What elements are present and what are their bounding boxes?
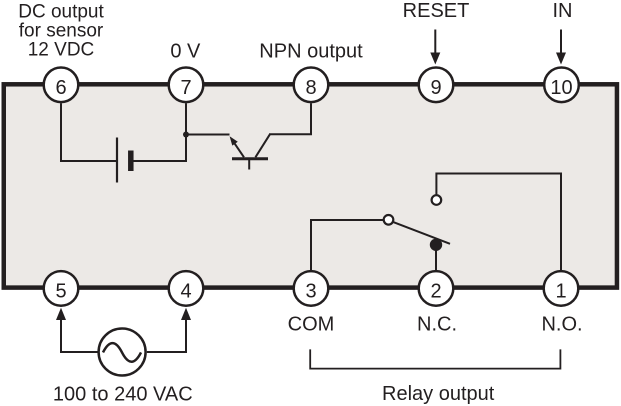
- wire battery to terminal 7 branch: [134, 160, 187, 162]
- svg-text:Relay output: Relay output: [382, 383, 495, 405]
- svg-text:6: 6: [55, 77, 66, 99]
- terminal 8: [294, 68, 329, 103]
- wire AC source to terminal 4: [147, 308, 191, 352]
- svg-text:NPN output: NPN output: [259, 41, 363, 63]
- terminal 5: [44, 271, 79, 306]
- IN input arrow: [556, 30, 566, 65]
- svg-text:RESET: RESET: [403, 0, 470, 22]
- wire node to transistor emitter: [186, 134, 230, 136]
- svg-text:DC output: DC output: [18, 2, 104, 23]
- terminal 2: [419, 271, 454, 306]
- svg-text:N.C.: N.C.: [417, 313, 457, 335]
- wire collector to terminal 8: [269, 103, 311, 134]
- wire N.C. contact to terminal 2: [435, 245, 437, 270]
- svg-text:9: 9: [430, 77, 441, 99]
- terminal 3: [294, 271, 329, 306]
- label: DC output for sensor 12 VDC: [18, 2, 104, 61]
- svg-text:3: 3: [305, 281, 316, 303]
- svg-text:for sensor: for sensor: [19, 21, 104, 42]
- svg-text:N.O.: N.O.: [541, 313, 582, 335]
- contact pivot (COM): [384, 215, 394, 225]
- bracket relay output: [310, 349, 560, 368]
- wire terminal 7 down: [185, 103, 187, 162]
- junction node: [183, 132, 189, 138]
- terminal 4: [169, 271, 204, 306]
- terminal 9: [419, 68, 454, 103]
- svg-text:1: 1: [555, 281, 566, 303]
- wire terminal 6 to battery: [61, 103, 116, 161]
- wire AC source to terminal 5: [56, 308, 98, 352]
- svg-text:COM: COM: [288, 313, 335, 335]
- svg-text:0 V: 0 V: [170, 41, 201, 63]
- svg-text:7: 7: [180, 77, 191, 99]
- terminal 7: [169, 68, 204, 103]
- svg-text:2: 2: [430, 281, 441, 303]
- N.C. contact: [430, 239, 442, 251]
- wire N.O. contact to terminal 1: [436, 174, 561, 271]
- svg-text:IN: IN: [553, 0, 573, 22]
- battery BT1: [117, 138, 131, 183]
- svg-text:5: 5: [55, 281, 66, 303]
- AC source V1: [99, 329, 146, 376]
- transistor Q1: [230, 134, 270, 169]
- svg-text:10: 10: [550, 77, 572, 99]
- svg-text:12 VDC: 12 VDC: [28, 40, 95, 61]
- device body: [4, 84, 617, 287]
- terminal 6: [44, 68, 79, 103]
- relay blade: [394, 222, 450, 244]
- wire terminal 3 to contact pivot: [311, 220, 384, 270]
- svg-text:4: 4: [180, 281, 191, 303]
- RESET input arrow: [430, 30, 440, 65]
- terminal 10: [544, 68, 579, 103]
- terminal 1: [544, 271, 579, 306]
- svg-text:8: 8: [305, 77, 316, 99]
- svg-text:100 to 240 VAC: 100 to 240 VAC: [53, 384, 193, 406]
- N.O. contact: [432, 195, 442, 205]
